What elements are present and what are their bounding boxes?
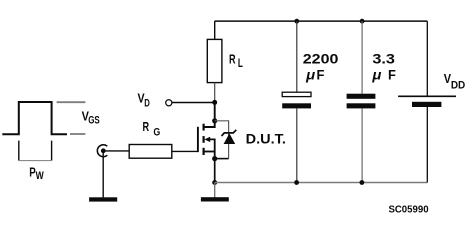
top rail	[215, 20, 428, 22]
ground (main)	[201, 197, 229, 201]
svg-text:3.3: 3.3	[372, 52, 395, 67]
resistor RG	[129, 145, 172, 159]
level dash top	[57, 101, 86, 103]
wire VD node to drain node	[214, 102, 216, 120]
body diode branch bottom wire	[215, 158, 229, 160]
label 3.3 uF	[371, 52, 396, 83]
MOSFET body arrow	[204, 137, 210, 142]
svg-text:DD: DD	[451, 80, 465, 92]
wire to main ground	[214, 183, 216, 198]
svg-text:W: W	[36, 170, 45, 182]
node VD junction dot	[212, 100, 217, 105]
capacitor C1 2200uF negative plate	[282, 103, 311, 108]
label RL	[229, 52, 243, 71]
node rail dot C2 bottom	[360, 180, 365, 185]
label VGS	[82, 108, 100, 126]
MOSFET body line	[210, 139, 215, 158]
node rail dot C1 bottom	[294, 180, 299, 185]
PW bracket left tick	[18, 141, 20, 161]
node source junction dot	[212, 156, 217, 161]
node rail dot C2 top	[360, 19, 365, 24]
ground (input)	[89, 197, 117, 201]
wire RL to VD node	[214, 83, 216, 103]
MOSFET source stub	[204, 151, 215, 153]
wire battery bottom	[426, 107, 428, 183]
battery VDD negative plate	[412, 102, 441, 107]
svg-text:R: R	[142, 119, 149, 134]
svg-text:G: G	[153, 127, 160, 139]
body diode zener cathode	[222, 130, 237, 136]
connector (coax input) arc	[97, 145, 107, 157]
capacitor C2 3.3uF bottom plate	[347, 103, 376, 108]
wire RG to gate	[172, 150, 198, 152]
svg-text:L: L	[238, 56, 243, 70]
wire source to bottom rail	[214, 159, 216, 183]
svg-text:SC05990: SC05990	[388, 205, 428, 216]
svg-text:μ: μ	[305, 68, 315, 83]
wire VD terminal to drain	[172, 102, 215, 104]
svg-text:GS: GS	[88, 114, 100, 126]
svg-text:2200: 2200	[303, 52, 339, 67]
wire battery top	[426, 21, 428, 96]
wire C1 top	[296, 21, 298, 92]
MOSFET gate bar	[197, 127, 199, 152]
pulse waveform VGS	[2, 102, 67, 134]
MOSFET channel bar bottom	[203, 148, 205, 155]
wire rail to RL	[214, 21, 216, 39]
svg-text:D.U.T.: D.U.T.	[246, 132, 286, 147]
capacitor C1 2200uF positive plate	[282, 92, 311, 96]
svg-text:F: F	[317, 68, 325, 83]
capacitor C2 3.3uF top plate	[347, 94, 376, 99]
label VDD	[444, 71, 466, 91]
label 2200 uF	[303, 52, 339, 83]
wire connector to ground	[102, 151, 104, 198]
svg-text:F: F	[388, 68, 396, 83]
MOSFET channel bar top	[203, 124, 205, 131]
body diode triangle	[224, 133, 236, 144]
MOSFET channel bar middle	[203, 136, 205, 143]
MOSFET Q drain stub	[204, 121, 215, 127]
svg-text:R: R	[229, 52, 236, 67]
level dash bottom	[70, 133, 85, 135]
PW bracket bottom line	[19, 160, 52, 162]
bottom rail	[215, 182, 428, 184]
node rail dot C1 top	[294, 19, 299, 24]
svg-text:D: D	[144, 97, 150, 109]
PW bracket right tick	[51, 141, 53, 161]
svg-text:μ: μ	[371, 68, 381, 83]
battery VDD positive plate	[398, 95, 456, 97]
wire connector to RG	[103, 150, 129, 152]
node drain junction dot	[212, 118, 217, 123]
connector center dot	[101, 148, 106, 153]
resistor RL	[207, 39, 222, 82]
label RG	[142, 119, 160, 139]
wire C2 bottom	[361, 108, 363, 182]
terminal VD open circle	[166, 100, 172, 106]
label PW	[29, 164, 44, 182]
wire C2 top	[361, 21, 363, 94]
node bottom rail source dot	[212, 180, 217, 185]
label VD	[137, 91, 149, 110]
body diode branch top wire	[215, 121, 229, 159]
wire C1 bottom	[296, 108, 298, 182]
